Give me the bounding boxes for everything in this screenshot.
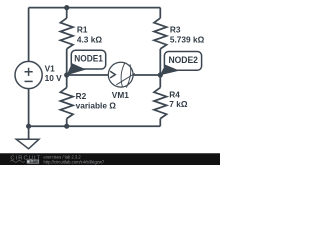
junction dot bottom left ground xyxy=(26,124,31,129)
svg-text:NODE1: NODE1 xyxy=(74,53,103,63)
wire left vertical V1 to bottom wire xyxy=(28,89,30,127)
NODE2 flag tail xyxy=(160,65,180,76)
junction dot NODE2 xyxy=(158,72,163,77)
svg-text:R1: R1 xyxy=(77,24,88,34)
svg-text:VM1: VM1 xyxy=(112,90,129,100)
wire bottom horizontal xyxy=(29,125,161,127)
voltage source V1 xyxy=(15,61,42,88)
resistor R2 variable xyxy=(60,88,73,119)
voltmeter VM1 xyxy=(108,62,133,87)
node NODE2 flag box xyxy=(164,52,201,71)
NODE1 flag tail xyxy=(67,63,86,75)
junction dot top middle xyxy=(64,5,69,10)
svg-text:R2: R2 xyxy=(76,91,87,101)
watermark logo LAB arrow xyxy=(28,160,30,163)
wire left vertical top wire to V1 xyxy=(28,8,30,62)
watermark logo waveform xyxy=(10,160,24,162)
watermark bar xyxy=(0,153,220,165)
wire R2 top lead xyxy=(66,75,68,88)
svg-text:R3: R3 xyxy=(170,24,181,34)
wire voltmeter to NODE2 xyxy=(133,74,160,76)
resistor R3 xyxy=(154,18,167,49)
ground stem xyxy=(28,126,30,139)
svg-text:4.3 kΩ: 4.3 kΩ xyxy=(77,34,102,44)
svg-text:LAB: LAB xyxy=(30,159,38,164)
wire R3 bottom lead to NODE2 junction xyxy=(159,49,161,75)
wire middle branch top lead xyxy=(66,8,68,19)
junction dot NODE1 xyxy=(64,72,69,77)
svg-text:10 V: 10 V xyxy=(45,73,63,83)
VM1 gauge arc right xyxy=(126,64,130,87)
V1 minus sign xyxy=(25,80,33,82)
svg-text:variable Ω: variable Ω xyxy=(76,101,117,111)
svg-text:http://circuitlab.com/c4rb3ktg: http://circuitlab.com/c4rb3ktgzw7 xyxy=(44,160,105,165)
svg-text:7 kΩ: 7 kΩ xyxy=(169,99,188,109)
wire top horizontal xyxy=(29,7,161,9)
wire R4 bottom lead xyxy=(159,119,161,127)
wire right branch top lead xyxy=(159,8,161,19)
VM1 chevron xyxy=(110,71,115,78)
V1 plus sign xyxy=(25,68,33,76)
junction dot bottom middle xyxy=(64,124,69,129)
svg-text:5.739 kΩ: 5.739 kΩ xyxy=(170,34,205,44)
watermark bar top edge xyxy=(0,152,220,155)
svg-text:R4: R4 xyxy=(169,90,180,100)
node NODE1 flag box xyxy=(71,50,105,69)
resistor R1 xyxy=(60,18,73,49)
wire R2 bottom lead xyxy=(66,119,68,127)
watermark logo LAB box xyxy=(27,160,39,164)
ground xyxy=(16,139,39,149)
wire R1 bottom lead to NODE1 junction xyxy=(66,49,68,75)
VM1 needle xyxy=(116,73,135,84)
wire NODE1 to voltmeter xyxy=(67,74,109,76)
VM1 gauge arc left xyxy=(121,63,125,87)
resistor R4 xyxy=(154,88,167,119)
svg-text:NODE2: NODE2 xyxy=(168,55,198,65)
wire R4 top lead xyxy=(159,75,161,88)
